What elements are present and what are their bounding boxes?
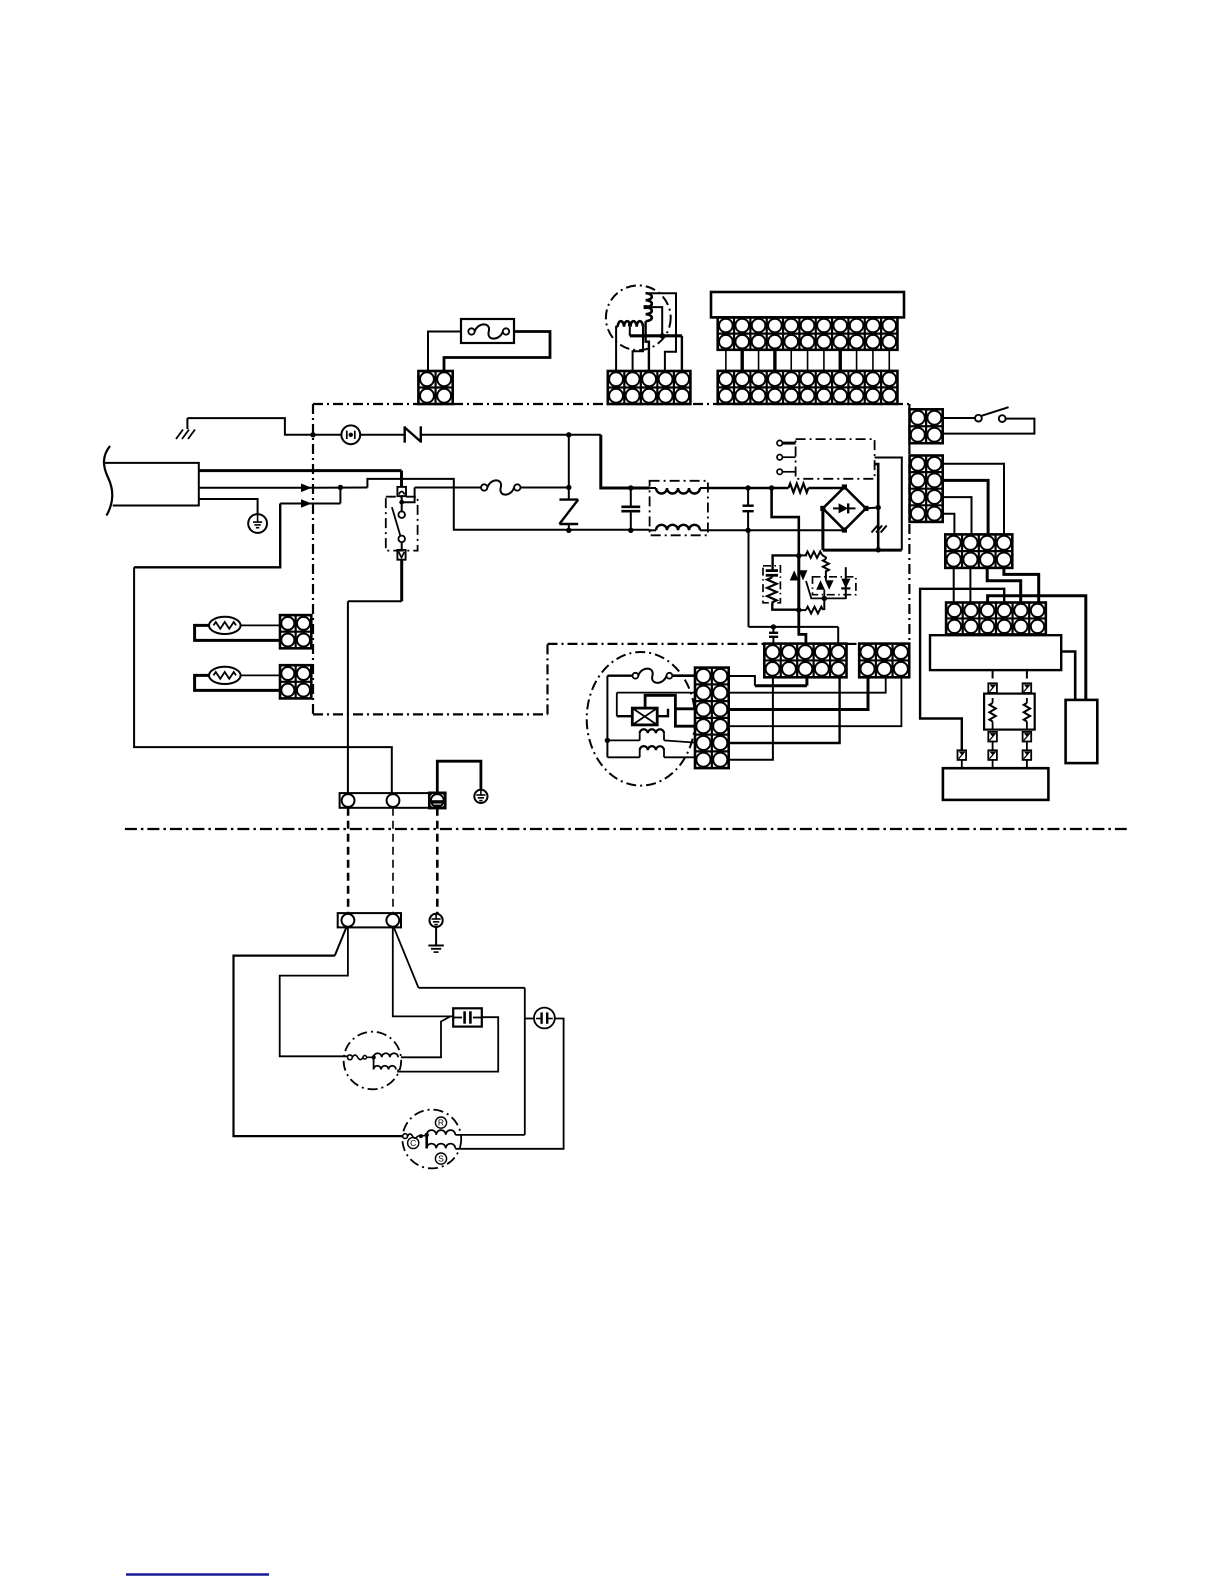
svg-text:S: S bbox=[438, 1154, 444, 1164]
svg-text:C: C bbox=[410, 1138, 416, 1148]
svg-text:R: R bbox=[438, 1118, 444, 1128]
